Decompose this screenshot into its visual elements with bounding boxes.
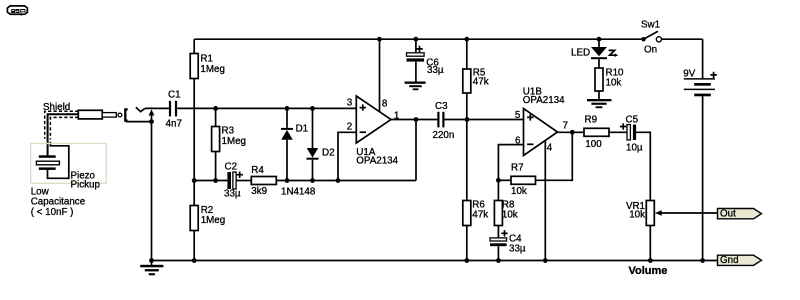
wire: U1B pin 4 to ground rail [544, 141, 546, 261]
label + C5 [620, 123, 626, 129]
piezo pickup enclosure box [31, 144, 107, 184]
junction: rail at C6 [414, 37, 419, 42]
label + battery [710, 72, 716, 78]
wire: piezo return loop to cable sleeve [48, 142, 69, 179]
capacitor C6 [407, 39, 425, 81]
svg-text:33µ: 33µ [509, 243, 526, 254]
wire: +9V top rail [194, 38, 641, 40]
resistor R10 [595, 68, 603, 99]
wire: U1B output to R9 [558, 131, 585, 133]
svg-text:Volume: Volume [629, 265, 668, 277]
svg-text:220n: 220n [433, 130, 455, 141]
capacitor C1 [169, 101, 177, 117]
jack socket J1 bracket [125, 109, 127, 120]
junction: feedback line at D2 [310, 178, 315, 183]
svg-text:Sw1: Sw1 [641, 20, 660, 31]
svg-text:33µ: 33µ [427, 65, 444, 76]
jack socket sleeve arrow [149, 109, 155, 121]
junction: feedback node at R7/R8 [496, 178, 501, 183]
potentiometer VR1 [646, 201, 654, 261]
junction: ground rail at R2 [192, 258, 197, 263]
svg-text:3k9: 3k9 [251, 186, 267, 197]
junction: ground rail at R6 [464, 258, 469, 263]
jack socket tip contact [136, 107, 145, 111]
svg-text:9V: 9V [683, 68, 695, 79]
VR1 wiper arrow [655, 210, 718, 216]
junction: input at D2 [310, 106, 315, 111]
svg-text:10k: 10k [606, 78, 622, 89]
svg-text:C1: C1 [168, 89, 181, 100]
capacitor C4 [490, 238, 507, 261]
svg-text:10µ: 10µ [626, 143, 643, 154]
resistor R5 [463, 39, 471, 119]
svg-text:47k: 47k [473, 77, 489, 88]
svg-text:8: 8 [382, 99, 388, 110]
diode D1 [281, 108, 293, 180]
wire: U1A pin 8 to +9V rail [379, 39, 381, 111]
wire: input line jack tip to U1A pin 3 [145, 107, 169, 109]
capacitor C5 [627, 125, 650, 201]
junction: input at D1 [285, 106, 290, 111]
svg-text:2: 2 [347, 122, 352, 133]
op-amp U1A [356, 96, 391, 143]
wire: C2 to R4 [236, 180, 251, 182]
resistor R1 [190, 39, 198, 205]
junction: ground rail at battery [700, 258, 705, 263]
junction: input at R3 top [213, 106, 218, 111]
op-amp U1B [524, 109, 558, 156]
svg-text:Out: Out [720, 209, 736, 220]
junction: node A at R3 [213, 178, 218, 183]
resistor R6 [463, 120, 471, 261]
svg-text:33µ: 33µ [224, 189, 241, 200]
label - input U1B [527, 143, 533, 145]
piezo pickup element PZ1 [36, 155, 59, 170]
wire: ground rail [152, 260, 718, 262]
svg-text:C3: C3 [435, 101, 448, 112]
wire: centre conductor plug to piezo top [48, 114, 79, 155]
svg-text:10k: 10k [629, 210, 645, 221]
wire: U1A output to C3 [391, 119, 437, 121]
wire: U1B pin 6 to feedback node [498, 145, 523, 181]
terminal Gnd [718, 255, 762, 266]
svg-text:Gnd: Gnd [720, 255, 739, 266]
junction: ground rail at C4 [496, 258, 501, 263]
junction: feedback line at D1 [285, 178, 290, 183]
jack plug P1 [78, 110, 122, 119]
ground at R10 [587, 99, 611, 108]
svg-text:LED: LED [571, 48, 590, 59]
svg-text:OPA2134: OPA2134 [523, 95, 565, 106]
diode D2 [307, 108, 319, 180]
label - input U1A [360, 131, 366, 133]
battery B1 9V [684, 39, 715, 260]
svg-text:3: 3 [347, 97, 353, 108]
wire: C3 to U1B pin 5 [445, 119, 524, 121]
svg-text:10k: 10k [511, 186, 527, 197]
junction: ground rail at jack sleeve [149, 258, 154, 263]
svg-text:Pickup: Pickup [71, 180, 101, 191]
junction: ground rail at VR1 [648, 258, 653, 263]
capacitor C3 [437, 112, 444, 128]
svg-text:D1: D1 [296, 123, 309, 134]
resistor R9 [584, 128, 627, 136]
svg-text:10k: 10k [502, 209, 518, 220]
svg-text:4: 4 [547, 143, 553, 154]
svg-text:R4: R4 [251, 165, 264, 176]
svg-text:R7: R7 [511, 163, 524, 174]
resistor R3 [212, 108, 220, 180]
svg-text:R9: R9 [585, 114, 598, 125]
wire: feedback riser to output [415, 120, 417, 181]
terminal Out [718, 209, 762, 220]
junction: U1B output node [570, 130, 575, 135]
switch Sw1 [641, 31, 661, 42]
resistor R2 [190, 206, 198, 261]
shield inner dashed wire [50, 117, 78, 139]
ground at C6 [405, 82, 426, 91]
wire: bias node A [194, 180, 227, 182]
svg-text:7: 7 [563, 121, 568, 132]
svg-text:4n7: 4n7 [166, 119, 182, 130]
junction: rail at pin 8 [377, 37, 382, 42]
label + C2 [237, 172, 243, 178]
svg-text:OPA2134: OPA2134 [356, 156, 398, 167]
resistor R8 [494, 180, 502, 238]
junction: rail at R5 [464, 37, 469, 42]
label + input U1B [527, 114, 533, 120]
capacitor C2 [227, 172, 236, 189]
svg-text:On: On [644, 45, 657, 56]
label + C4 [501, 230, 507, 236]
junction: pin5 bias node [465, 117, 470, 122]
svg-text:C5: C5 [626, 115, 639, 126]
junction: feedback line at pin2 drop [336, 178, 341, 183]
esp logo [7, 6, 27, 16]
LED arrows [609, 50, 619, 57]
shield outer dashed wire [45, 111, 79, 138]
LED [591, 39, 607, 68]
junction: U1A output node [414, 117, 419, 122]
ground symbol main [140, 261, 163, 276]
svg-text:5: 5 [515, 110, 521, 121]
svg-text:D2: D2 [322, 148, 335, 159]
junction: ground rail at pin 4 [543, 258, 548, 263]
wire: U1A pin 2 feedback drop [338, 132, 356, 180]
resistor R7 [498, 132, 572, 184]
svg-text:1Meg: 1Meg [201, 215, 226, 226]
jack socket sleeve wire [126, 121, 152, 123]
junction: sleeve node [149, 119, 154, 124]
svg-text:47k: 47k [472, 209, 488, 220]
svg-text:( < 10nF ): ( < 10nF ) [31, 207, 74, 218]
label + input U1A [360, 104, 366, 110]
label + C6 [416, 46, 422, 52]
svg-text:1Meg: 1Meg [222, 136, 247, 147]
svg-text:C2: C2 [225, 162, 238, 173]
resistor R4 [251, 177, 416, 185]
junction: rail at LED [597, 37, 602, 42]
junction: node A at R1/R2 [192, 178, 197, 183]
svg-text:1Meg: 1Meg [200, 64, 225, 75]
svg-text:1N4148: 1N4148 [281, 187, 316, 198]
wire: sleeve down to ground rail [151, 122, 153, 261]
svg-text:100: 100 [585, 139, 602, 150]
